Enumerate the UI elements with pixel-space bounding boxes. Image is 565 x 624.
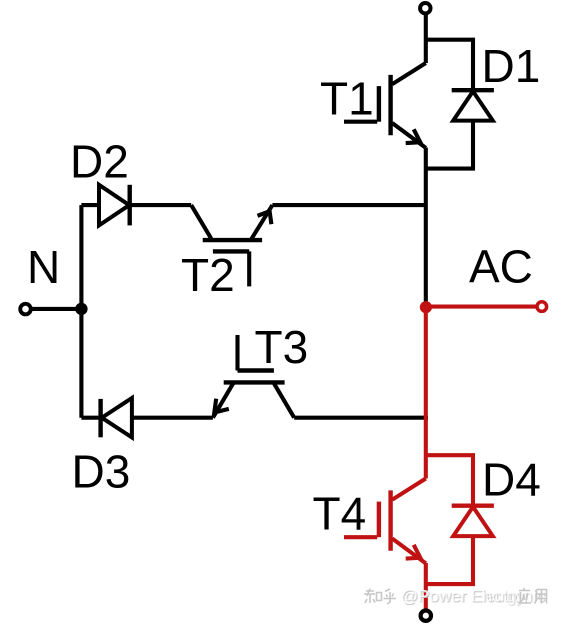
wire D3 to T3 xyxy=(132,416,213,420)
svg-text:T1: T1 xyxy=(320,73,374,125)
svg-text:N: N xyxy=(27,241,60,293)
terminal DC- (bottom) xyxy=(421,611,431,621)
wire N terminal to junction xyxy=(31,307,81,311)
svg-text:D1: D1 xyxy=(482,40,541,92)
svg-text:@Power Encrgy: @Power Encrgy xyxy=(401,586,525,605)
wire N trunk vertical xyxy=(79,205,83,418)
svg-text:D4: D4 xyxy=(482,453,541,505)
svg-text:T3: T3 xyxy=(255,321,309,373)
transistor T3 xyxy=(213,335,294,418)
wire T3 collector to trunk xyxy=(294,416,428,420)
diode D2 xyxy=(99,185,130,226)
terminal DC+ (top) xyxy=(420,3,430,13)
svg-text:D2: D2 xyxy=(70,135,129,187)
wire N trunk to D2 xyxy=(81,203,99,207)
svg-text:AC: AC xyxy=(469,240,533,292)
terminal N xyxy=(20,304,31,315)
wire AC output (red) xyxy=(426,305,537,309)
wire N trunk to D3 xyxy=(81,416,100,420)
transistor T4 (red) xyxy=(344,479,426,564)
svg-text:T2: T2 xyxy=(181,249,235,301)
transistor T2 xyxy=(191,205,272,286)
wire red trunk AC node to T4 xyxy=(424,307,428,479)
diode D1 xyxy=(452,90,494,120)
svg-text:T4: T4 xyxy=(313,488,367,540)
watermark zhihu CJK glyph 用 xyxy=(535,590,547,604)
wire top terminal down to T1 collector bend xyxy=(424,14,428,63)
watermark zhihu CJK glyph 知 xyxy=(364,589,382,604)
wire red trunk T4 emitter to bottom terminal xyxy=(424,563,428,610)
wire D2 to T2 xyxy=(130,203,192,207)
wire D4 branch top (red) xyxy=(426,455,473,504)
diode D3 xyxy=(101,398,132,437)
diode D4 (red) xyxy=(452,506,494,536)
wire trunk T1 emitter to AC node xyxy=(424,148,428,304)
node N junction xyxy=(75,303,87,315)
watermark zhihu CJK glyph 乎 xyxy=(384,589,397,604)
transistor T1 xyxy=(344,63,426,148)
wire D4 bottom (red) xyxy=(426,536,473,584)
svg-text:D3: D3 xyxy=(72,445,131,497)
watermark zhihu CJK glyph 应 xyxy=(519,588,532,604)
node AC junction (red dot) xyxy=(420,301,432,313)
watermark text @Power E (embossed) xyxy=(400,586,547,606)
terminal AC (red) xyxy=(537,302,547,312)
wire T2 emitter to trunk xyxy=(272,203,425,207)
wire D1 branch top xyxy=(426,40,473,88)
wire D1 bottom xyxy=(426,121,473,169)
